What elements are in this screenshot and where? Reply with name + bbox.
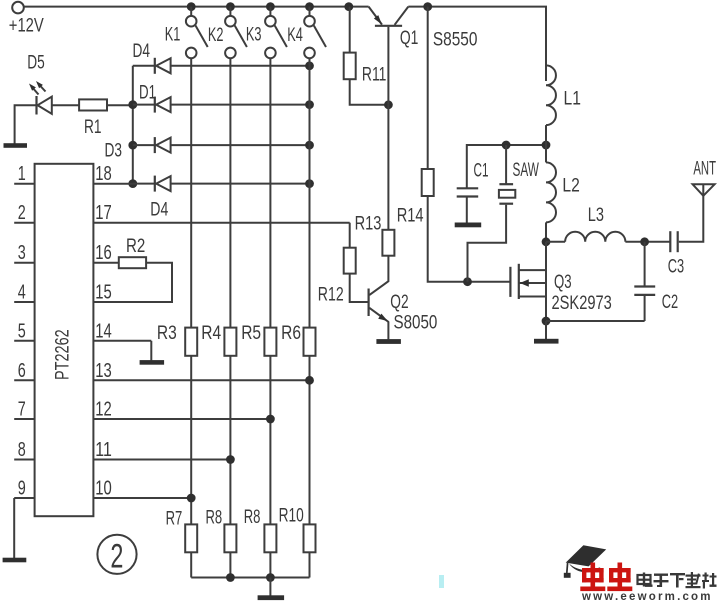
svg-text:PT2262: PT2262 [52,329,74,380]
wire K4 column [309,58,311,577]
SAW resonator [499,145,539,204]
xia [670,573,685,575]
diode D3 row3 [105,137,310,161]
wire drain to L3 [546,241,565,243]
svg-text:2SK2973: 2SK2973 [552,292,612,314]
resistor R7 [166,507,198,552]
svg-text:2: 2 [110,538,123,576]
svg-text:Q2: Q2 [390,291,408,313]
key K2 [208,7,247,59]
node pin12 K3 [266,415,275,424]
pin 14 [93,319,151,342]
svg-text:11: 11 [95,438,112,461]
node pin11 K2 [226,455,235,464]
svg-text:R7: R7 [166,507,183,529]
resistor R5 [241,322,276,356]
wire K3 column [269,58,271,577]
wire R14 to Q3 gate [428,196,511,282]
zhan [703,575,709,577]
pin 18 [93,162,132,185]
svg-text:C3: C3 [668,255,684,277]
svg-text:ANT: ANT [693,158,716,180]
svg-text:R4: R4 [201,322,221,344]
wire bottom rail [191,577,309,579]
svg-text:14: 14 [95,319,112,342]
svg-text:R10: R10 [279,505,304,527]
svg-text:1: 1 [18,162,26,185]
node rail K3 [266,2,275,11]
svg-text:3: 3 [18,241,26,264]
node K4 row3 [305,141,314,150]
svg-text:5: 5 [18,319,26,342]
wire C3 to antenna [679,184,704,242]
svg-text:R12: R12 [318,284,344,306]
node gate SAW [463,277,472,286]
wire SAW branch [468,205,507,282]
resistor R14 [397,169,434,227]
watermark site name [638,572,717,589]
node bus D3 [128,141,137,150]
inductor L2 [546,145,580,242]
key K1 [165,7,208,59]
resistor R12 [318,248,356,306]
resistor R11 [344,7,387,86]
svg-text:17: 17 [95,201,112,224]
pin 1 [14,162,34,185]
wire pin9 to ground [13,498,15,558]
pin 2 [14,201,34,224]
IC U1 PT2262 [35,164,94,516]
svg-text:R2: R2 [126,235,145,257]
svg-text:R11: R11 [362,64,387,86]
svg-text:2: 2 [18,201,26,224]
node bus D4b [128,179,137,188]
wire R12 to Q2 base [350,274,368,302]
node L1 L2 [542,141,551,150]
node K4 row1 [305,61,314,70]
svg-text:S8050: S8050 [394,311,438,333]
LED D5 [27,52,52,115]
key K4 [287,7,326,59]
svg-text:Q3: Q3 [554,271,572,293]
resistor R10 [279,505,316,553]
node pin13 K4 [305,376,314,385]
svg-text:L3: L3 [588,204,604,226]
node rail R11 [344,2,353,11]
pin 3 [14,241,34,264]
ground Q3 [534,339,559,344]
node pin10 K1 [187,494,196,503]
pin 17 [93,201,349,224]
ground Q2 [376,339,401,344]
dian [638,575,651,584]
svg-text:K3: K3 [246,24,262,46]
svg-text:S8550: S8550 [433,29,478,51]
svg-text:C2: C2 [662,291,678,313]
wire L3 to C3 node [625,241,669,243]
svg-text:SAW: SAW [513,159,540,181]
wire K1 column [190,58,192,577]
svg-text:K2: K2 [208,24,224,46]
ground D5 [4,143,28,148]
diode D1 row2 [133,81,310,112]
zi [654,574,668,576]
svg-text:18: 18 [95,162,112,185]
node SAW top [502,141,511,150]
svg-text:R8: R8 [206,507,223,529]
pin 8 [14,438,34,461]
wire R14 column [427,7,429,169]
svg-text:8: 8 [18,438,26,461]
capacitor C1 [457,160,489,223]
node rail R14 [423,2,432,11]
svg-text:D4: D4 [150,199,168,221]
wire +12V rail left [24,6,369,8]
ground C1 [455,223,482,228]
ground bottom [258,595,285,600]
svg-text:D4: D4 [133,40,151,62]
node Q3 source [542,317,551,326]
pin 6 [14,359,34,382]
svg-text:D3: D3 [105,139,123,161]
pin 16 [93,241,118,264]
watermark artifact [439,575,444,588]
key K3 [246,7,287,59]
svg-text:L2: L2 [562,175,579,197]
node Q1 base R11 [384,100,393,109]
resistor R2 [119,235,146,268]
diode D4 row4 [133,176,310,221]
resistor R13 [355,213,395,256]
svg-text:L1: L1 [564,88,581,110]
svg-text:R5: R5 [241,322,261,344]
wire pin17 to R12 [349,223,351,248]
pin 11 [93,438,230,461]
resistor R4 [201,322,236,356]
inductor L3 [565,204,625,242]
wire Q1 base to R13 [387,105,389,230]
wire R11 to Q1 base [350,79,389,105]
node bottom rail K2 [226,573,235,582]
terminal +12V [9,2,44,37]
node bus D1 [128,100,137,109]
svg-text:7: 7 [18,398,26,421]
transistor Q1 S8550 [369,7,478,105]
wire Q3 source to ground [545,321,547,339]
svg-text:15: 15 [95,281,112,304]
wire K2 column [229,58,231,577]
svg-text:K1: K1 [165,24,181,46]
svg-text:R13: R13 [355,213,382,235]
wire C2 to Q3 source [546,320,645,322]
node rail K2 [226,2,235,11]
svg-text:R6: R6 [281,322,301,344]
wire diode bus vertical [132,66,134,184]
svg-text:6: 6 [18,359,26,382]
svg-text:13: 13 [95,359,112,382]
transistor Q2 S8050 [369,289,438,334]
pin 9 [14,477,34,500]
pin 5 [14,319,34,342]
resistor R6 [281,322,315,356]
transistor Q3 2SK2973 [510,242,611,321]
node Q3 drain [542,237,551,246]
wire pin14 to ground [150,341,152,361]
wire D5 cathode to ground [15,105,37,143]
svg-text:R3: R3 [157,322,177,344]
pin 10 [93,477,191,500]
capacitor C3 [668,231,684,277]
node rail K4 [305,2,314,11]
wire D5 anode to R1 [52,104,79,106]
node rail K1 [187,2,196,11]
svg-text:www.eeworm.com: www.eeworm.com [581,591,713,603]
resistor R3 [157,322,197,356]
svg-text:+12V: +12V [9,15,44,37]
watermark cap [564,545,606,578]
watermark chongchong [580,563,632,592]
svg-text:D1: D1 [139,81,156,103]
svg-text:R14: R14 [397,205,424,227]
wire C1 SAW top [467,145,546,188]
pin 12 [93,398,270,421]
svg-text:10: 10 [95,477,112,500]
wire R2 to pin 15 [93,263,172,302]
node C2 C3 [640,237,649,246]
node K4 row2 [305,100,314,109]
node bottom rail K3 [266,573,275,582]
svg-text:Q1: Q1 [400,27,419,49]
node K4 row4 [305,179,314,188]
resistor R8b [244,506,277,552]
pin 7 [14,398,34,421]
figure number 2 [97,535,136,576]
svg-text:R8: R8 [244,506,261,528]
inductor L1 [546,7,581,145]
pin 4 [14,281,34,304]
ground pin14 [140,360,165,365]
svg-text:12: 12 [95,398,112,421]
svg-text:D5: D5 [27,52,45,74]
svg-text:9: 9 [18,477,26,500]
wire Q2 emitter to ground [387,322,389,340]
wire R1 to diode bus [107,104,133,106]
svg-text:16: 16 [95,241,112,264]
wire R13 to Q2 collector [369,256,388,295]
pin 13 [93,359,309,382]
capacitor C2 [634,242,678,321]
svg-text:K4: K4 [287,24,303,46]
svg-text:4: 4 [18,281,26,304]
svg-text:C1: C1 [474,160,489,182]
antenna ANT [693,158,716,196]
diode D4 row1 [133,40,310,74]
resistor R8a [206,507,237,553]
zai [686,575,701,577]
svg-text:R1: R1 [84,116,102,138]
wire bottom rail to ground [269,578,271,596]
ground pin9 [3,558,27,563]
wire +12V rail right [408,7,546,81]
resistor R1 [79,99,107,138]
